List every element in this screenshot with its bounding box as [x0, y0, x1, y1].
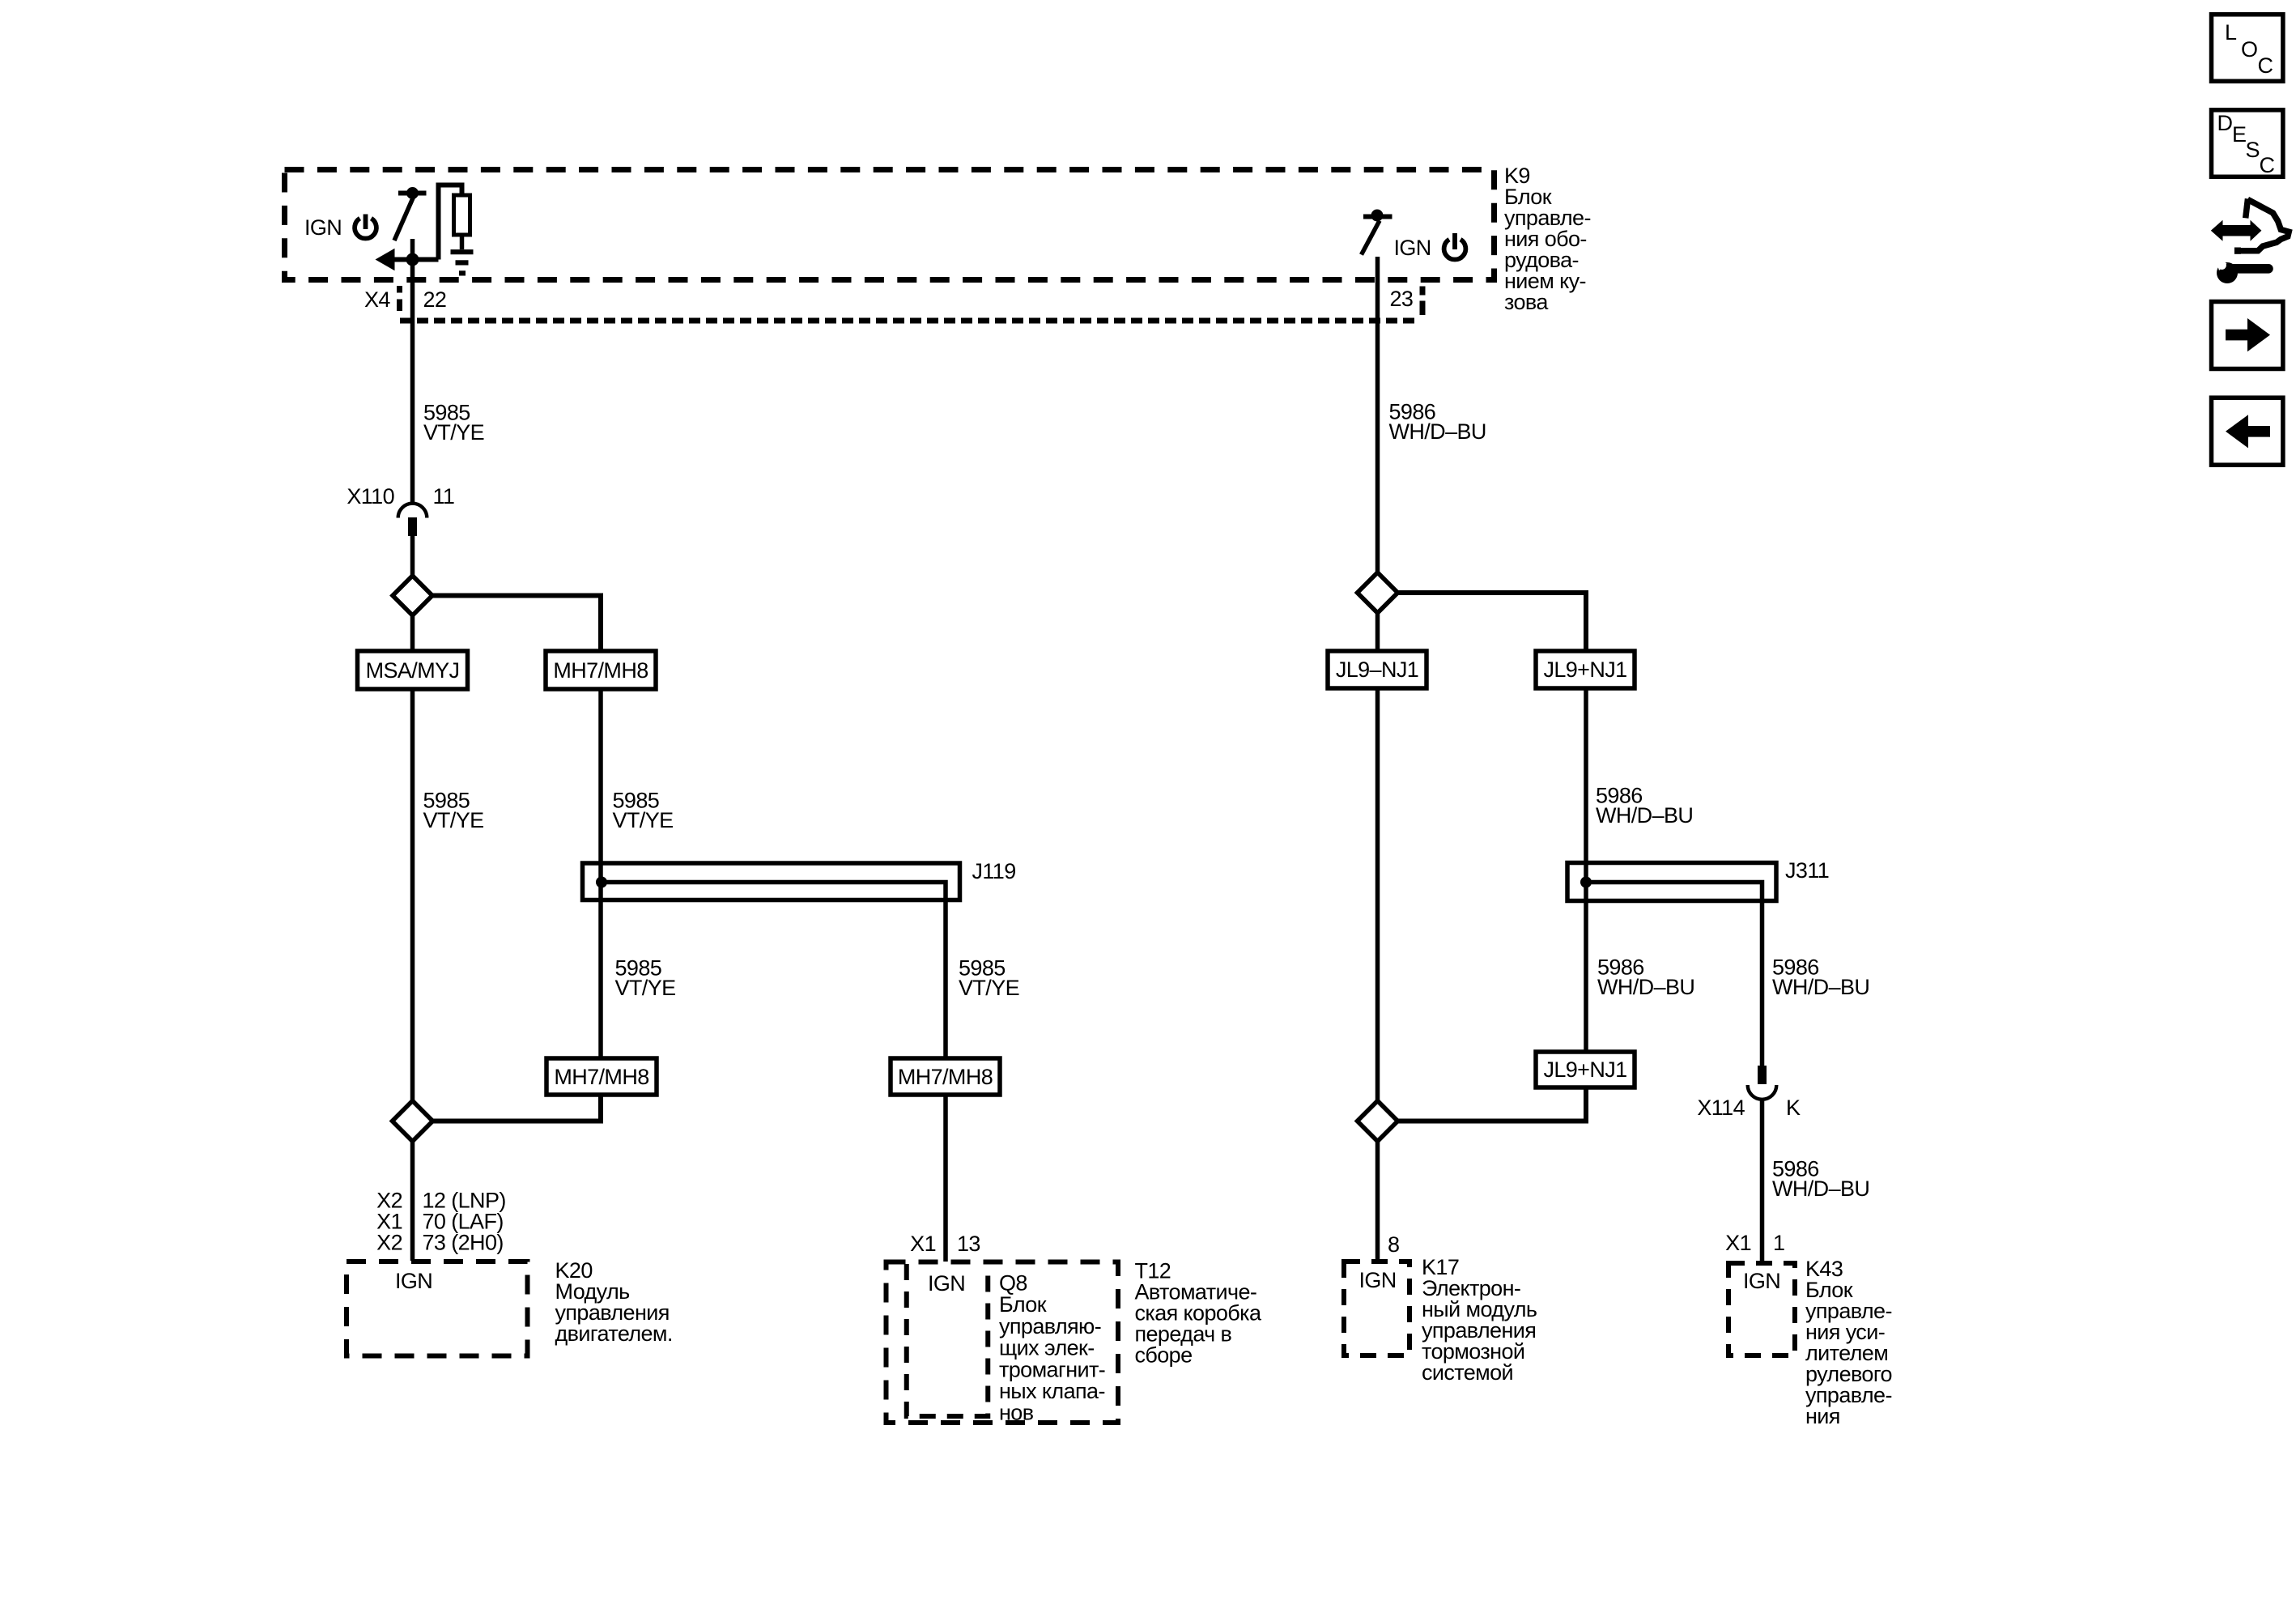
option box MH7/MH8 (upper) — [546, 651, 656, 689]
wire 5985 from K9 pin 22 — [410, 239, 415, 503]
wire X110 to splice S1 — [410, 536, 415, 577]
connector separator dashes X4/22 — [397, 286, 402, 311]
svg-text:J311: J311 — [1785, 858, 1829, 883]
svg-text:двигателем.: двигателем. — [555, 1321, 673, 1346]
svg-text:22: 22 — [423, 287, 447, 312]
wire JL9+NJ1 down to J311 — [1584, 688, 1588, 1053]
svg-text:JL9–NJ1: JL9–NJ1 — [1336, 657, 1418, 682]
connector X114 pin blade — [1758, 1066, 1767, 1084]
J119 internal bus wire — [602, 883, 946, 1061]
K20 description text — [555, 1258, 673, 1346]
svg-text:J119: J119 — [972, 859, 1016, 883]
splice pack J311 box — [1567, 863, 1776, 901]
splice pack J119 box — [583, 863, 960, 900]
switch S (right) blade — [1362, 221, 1380, 255]
svg-text:8: 8 — [1388, 1232, 1399, 1257]
svg-text:VT/YE: VT/YE — [959, 976, 1019, 1000]
svg-text:ния: ния — [1805, 1404, 1840, 1428]
wire with left arrow inside K9 — [390, 257, 439, 262]
svg-text:WH/D–BU: WH/D–BU — [1772, 1177, 1869, 1201]
svg-text:VT/YE: VT/YE — [423, 808, 484, 832]
splice diamond S1 — [393, 576, 432, 615]
wire MH7/MH8 lower-right to Q8 — [943, 1095, 948, 1262]
wire splice S3 down — [1375, 613, 1380, 653]
module T12 outer dashed box — [887, 1262, 1119, 1423]
K43 description text — [1805, 1257, 1892, 1428]
junction dot on left switch contact — [406, 187, 419, 199]
svg-text:IGN: IGN — [928, 1271, 965, 1296]
wire splice S4 to K17 pin 8 — [1375, 1142, 1380, 1260]
svg-text:Q8: Q8 — [999, 1271, 1027, 1296]
svg-text:VT/YE: VT/YE — [615, 976, 676, 1000]
margin icon DESC box — [2212, 110, 2283, 177]
junction dot in J311 — [1580, 877, 1592, 888]
svg-text:1: 1 — [1773, 1231, 1784, 1255]
svg-text:щих элек-: щих элек- — [999, 1336, 1095, 1360]
margin icon LOC box — [2212, 15, 2283, 82]
pin row labels K20 connectors — [376, 1189, 506, 1255]
connector X114 socket arc — [1748, 1085, 1777, 1100]
option box JL9+NJ1 (lower) — [1536, 1052, 1635, 1087]
module K20 dashed box — [347, 1262, 528, 1356]
connector separator dashes 23 — [1420, 287, 1426, 316]
module K9 body control module dashed box — [285, 170, 1495, 280]
connector X110 socket arc — [398, 504, 427, 518]
svg-text:сборе: сборе — [1135, 1343, 1193, 1368]
margin icon arrow left box — [2212, 398, 2283, 465]
power symbol (left) — [355, 215, 376, 239]
switch S (left) contact bar — [398, 191, 427, 196]
wire JL9-NJ1 down to splice S4 — [1375, 688, 1380, 1101]
svg-text:управляю-: управляю- — [999, 1314, 1101, 1338]
svg-text:JL9+NJ1: JL9+NJ1 — [1543, 1057, 1626, 1082]
svg-text:IGN: IGN — [1394, 236, 1431, 260]
T12 description text — [1135, 1259, 1262, 1368]
K17 description text — [1422, 1255, 1537, 1385]
svg-text:X114: X114 — [1697, 1096, 1745, 1120]
J311 internal bus wire — [1586, 883, 1762, 1068]
svg-text:E: E — [2232, 122, 2246, 147]
option box JL9+NJ1 (upper) — [1536, 651, 1635, 688]
svg-text:зова: зова — [1504, 290, 1549, 314]
wire splice S3 branch right — [1398, 593, 1587, 653]
wire X114 to K43 — [1760, 1100, 1765, 1261]
svg-text:ных клапа-: ных клапа- — [999, 1379, 1105, 1403]
arrowhead pointing left — [376, 249, 395, 270]
svg-text:13: 13 — [957, 1232, 980, 1256]
svg-text:MH7/MH8: MH7/MH8 — [553, 658, 648, 683]
wire splice S1 branch right — [432, 596, 601, 653]
svg-text:WH/D–BU: WH/D–BU — [1597, 975, 1694, 999]
ground symbol (inside K9) — [451, 252, 474, 273]
switch S (right) contact bar — [1363, 215, 1392, 219]
svg-text:IGN: IGN — [304, 215, 342, 240]
svg-text:C: C — [2260, 153, 2275, 177]
margin icon arrow right box — [2212, 302, 2283, 369]
svg-text:IGN: IGN — [1359, 1268, 1397, 1292]
svg-text:O: O — [2241, 37, 2257, 62]
module K17 dashed box — [1344, 1262, 1409, 1355]
option box MH7/MH8 (lower left) — [546, 1058, 657, 1095]
svg-text:11: 11 — [433, 484, 455, 509]
module K43 dashed box — [1728, 1263, 1795, 1355]
svg-text:нов: нов — [999, 1401, 1034, 1425]
svg-text:MH7/MH8: MH7/MH8 — [898, 1065, 993, 1089]
splice diamond S4 — [1358, 1101, 1398, 1142]
svg-text:C: C — [2258, 53, 2273, 78]
svg-text:X110: X110 — [347, 484, 394, 509]
power symbol (right) — [1444, 233, 1466, 260]
option box MH7/MH8 (lower right) — [891, 1058, 1000, 1095]
svg-text:L: L — [2225, 20, 2237, 45]
connector X110 pin blade — [408, 517, 417, 536]
K9 component description text — [1504, 164, 1591, 314]
svg-text:X1: X1 — [1725, 1231, 1751, 1255]
svg-text:WH/D–BU: WH/D–BU — [1596, 803, 1693, 828]
svg-text:23: 23 — [1390, 287, 1414, 311]
wire 5986 from K9 pin 23 — [1375, 257, 1380, 574]
wire MSA/MYJ down to splice S2 — [410, 689, 415, 1101]
junction dot on right switch contact — [1371, 210, 1384, 222]
option box MSA/MYJ — [358, 651, 468, 689]
svg-text:X2: X2 — [376, 1231, 402, 1255]
switch S (left) blade — [394, 198, 414, 241]
wire resistor to ground — [460, 235, 465, 249]
svg-text:MH7/MH8: MH7/MH8 — [554, 1065, 648, 1089]
wire splice S1 down to MSA/MYJ — [410, 615, 415, 653]
resistor R (inside K9 left) — [454, 195, 470, 235]
svg-text:WH/D–BU: WH/D–BU — [1389, 419, 1486, 444]
svg-text:S: S — [2246, 138, 2260, 162]
svg-text:тромагнит-: тромагнит- — [999, 1357, 1105, 1381]
wire loop to pull-up resistor (left) — [439, 185, 462, 260]
svg-text:WH/D–BU: WH/D–BU — [1772, 975, 1869, 999]
svg-text:IGN: IGN — [395, 1269, 432, 1293]
wire JL9+NJ1 lower to splice S4 — [1397, 1087, 1586, 1121]
svg-text:73 (2H0): 73 (2H0) — [423, 1231, 504, 1255]
margin icon car silhouette with double arrow and wrench — [2211, 199, 2289, 284]
option box JL9-NJ1 — [1328, 651, 1426, 688]
splice diamond S2 — [393, 1101, 433, 1142]
svg-text:K: K — [1786, 1096, 1801, 1120]
junction dot in J119 — [596, 877, 607, 888]
junction dot on arrow wire — [406, 253, 419, 266]
svg-text:D: D — [2217, 111, 2233, 135]
svg-text:VT/YE: VT/YE — [423, 420, 484, 445]
svg-text:Блок: Блок — [999, 1292, 1047, 1317]
wire MH7/MH8 lower-left to splice S2 — [432, 1095, 601, 1121]
svg-text:X1: X1 — [910, 1232, 936, 1256]
svg-text:IGN: IGN — [1743, 1269, 1780, 1293]
svg-text:MSA/MYJ: MSA/MYJ — [366, 658, 460, 683]
svg-text:VT/YE: VT/YE — [613, 808, 674, 832]
connector face dotted line under K9 — [400, 318, 1420, 324]
wire splice S2 to K20 — [410, 1142, 415, 1262]
splice diamond S3 — [1358, 572, 1398, 613]
svg-text:X4: X4 — [364, 287, 390, 312]
svg-text:JL9+NJ1: JL9+NJ1 — [1543, 657, 1626, 682]
Q8 description text — [999, 1271, 1105, 1425]
svg-text:системой: системой — [1422, 1360, 1513, 1385]
wire MH7/MH8 down through J119 — [598, 689, 603, 1060]
module Q8 inner dashed box — [907, 1264, 989, 1416]
